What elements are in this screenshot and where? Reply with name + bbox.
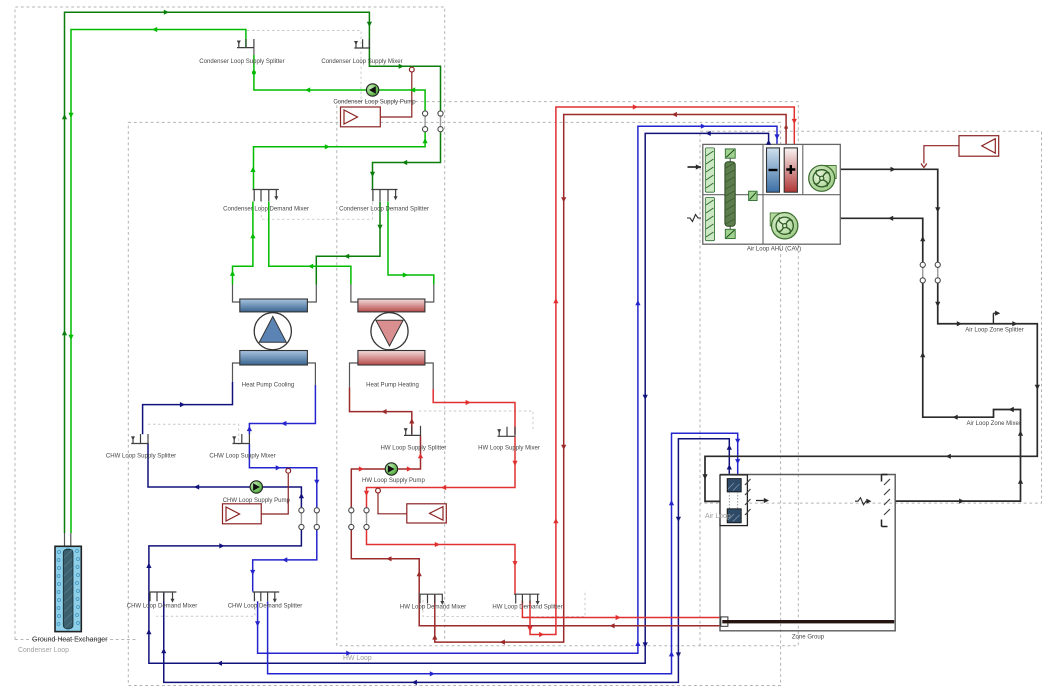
svg-text:Zone Group: Zone Group — [792, 635, 825, 641]
svg-text:CHW Loop Supply Splitter: CHW Loop Supply Splitter — [106, 454, 176, 460]
svg-text:HW Loop Supply Pump: HW Loop Supply Pump — [362, 478, 425, 484]
svg-text:Air Loop AHU (CAV): Air Loop AHU (CAV) — [747, 247, 801, 253]
svg-text:HW Loop Supply Mixer: HW Loop Supply Mixer — [478, 446, 540, 452]
svg-text:HW Loop Demand Splitter: HW Loop Demand Splitter — [492, 605, 562, 611]
svg-text:CHW Loop Supply Mixer: CHW Loop Supply Mixer — [209, 454, 275, 460]
svg-text:CHW Loop Supply Pump: CHW Loop Supply Pump — [223, 498, 291, 504]
svg-text:HW Loop Supply Splitter: HW Loop Supply Splitter — [381, 446, 447, 452]
svg-text:Condenser Loop Demand Mixer: Condenser Loop Demand Mixer — [223, 207, 309, 213]
svg-text:CHW Loop Demand Mixer: CHW Loop Demand Mixer — [127, 604, 198, 610]
svg-text:HW Loop Demand Mixer: HW Loop Demand Mixer — [400, 605, 466, 611]
svg-text:HW Loop: HW Loop — [343, 655, 372, 662]
svg-text:Ground Heat Exchanger: Ground Heat Exchanger — [32, 637, 108, 644]
svg-text:Condenser Loop Demand Splitter: Condenser Loop Demand Splitter — [339, 207, 429, 213]
svg-text:Air Loop: Air Loop — [705, 513, 731, 520]
svg-text:Air Loop Zone Mixer: Air Loop Zone Mixer — [966, 421, 1020, 427]
svg-text:Heat Pump Cooling: Heat Pump Cooling — [242, 383, 294, 389]
svg-text:Condenser Loop Supply Mixer: Condenser Loop Supply Mixer — [321, 59, 402, 65]
svg-text:Condenser Loop Supply Pump: Condenser Loop Supply Pump — [333, 100, 416, 106]
svg-text:CHW Loop Demand Splitter: CHW Loop Demand Splitter — [228, 604, 303, 610]
svg-text:Heat Pump Heating: Heat Pump Heating — [366, 383, 419, 389]
svg-text:Condenser Loop: Condenser Loop — [18, 647, 69, 654]
svg-text:Condenser Loop Supply Splitter: Condenser Loop Supply Splitter — [199, 59, 284, 65]
svg-text:Air Loop Zone Splitter: Air Loop Zone Splitter — [965, 328, 1024, 334]
